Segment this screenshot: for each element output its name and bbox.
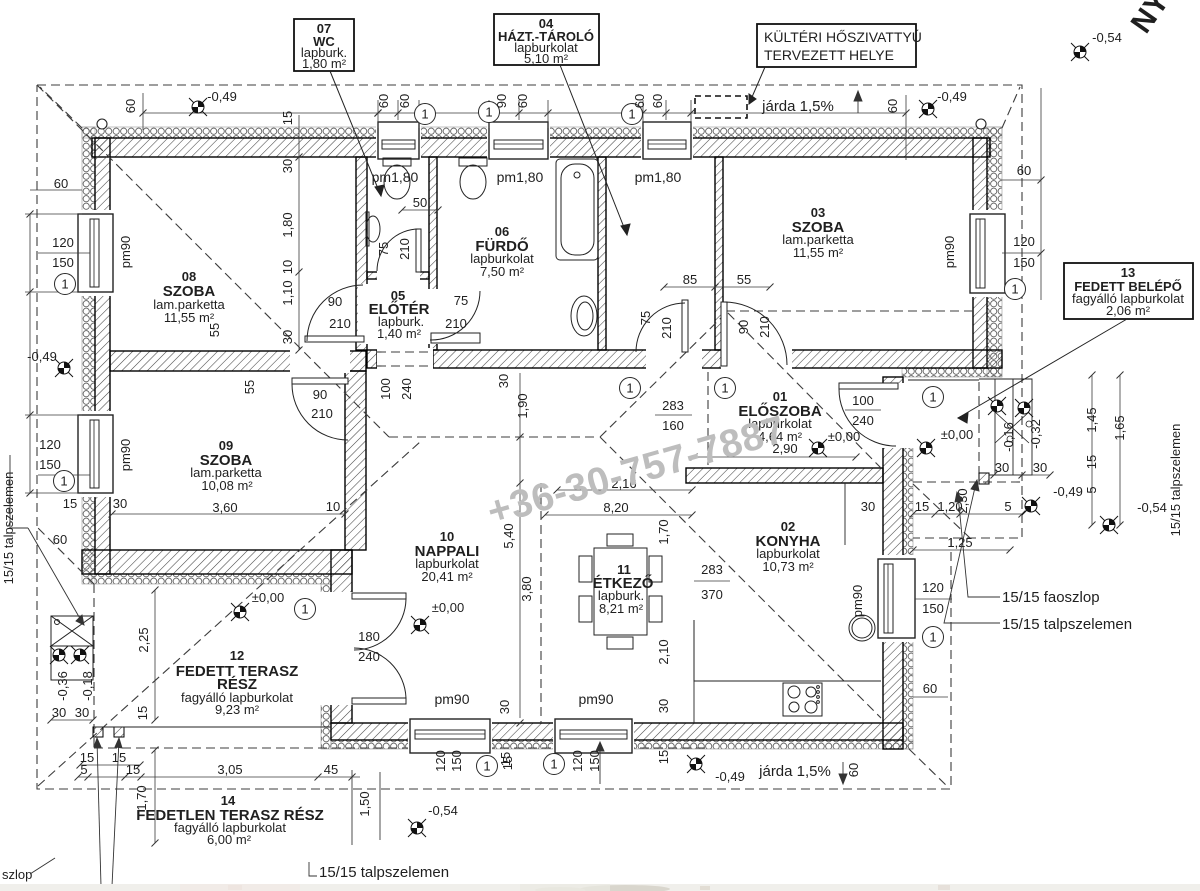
svg-text:pm90: pm90 [850, 585, 865, 618]
svg-text:1,70: 1,70 [656, 519, 671, 544]
svg-text:5: 5 [1084, 486, 1099, 493]
svg-text:60: 60 [1017, 163, 1031, 178]
svg-text:2,10: 2,10 [656, 639, 671, 664]
svg-text:10,08 m²: 10,08 m² [201, 478, 253, 493]
svg-text:1,40 m²: 1,40 m² [377, 326, 422, 341]
svg-text:120: 120 [52, 235, 74, 250]
svg-text:06: 06 [495, 224, 509, 239]
svg-text:10,73 m²: 10,73 m² [762, 559, 814, 574]
svg-text:-0,32: -0,32 [1028, 419, 1043, 449]
svg-text:1,65: 1,65 [1112, 415, 1127, 440]
svg-text:15: 15 [1084, 455, 1099, 469]
svg-text:120: 120 [39, 437, 61, 452]
svg-text:03: 03 [811, 205, 825, 220]
svg-text:10: 10 [326, 499, 340, 514]
svg-text:-0,54: -0,54 [1092, 30, 1122, 45]
svg-text:15: 15 [126, 762, 140, 777]
svg-text:15/15 faoszlop: 15/15 faoszlop [1002, 589, 1100, 606]
svg-text:-0,54: -0,54 [1137, 500, 1167, 515]
svg-text:45: 45 [324, 762, 338, 777]
svg-text:KÜLTÉRI HŐSZIVATTYÚ: KÜLTÉRI HŐSZIVATTYÚ [764, 28, 922, 45]
svg-text:±0,00: ±0,00 [432, 600, 464, 615]
svg-text:240: 240 [852, 413, 874, 428]
svg-text:30: 30 [280, 159, 295, 173]
svg-text:60: 60 [123, 99, 138, 113]
svg-text:15/15 talpszelemen: 15/15 talpszelemen [1002, 616, 1132, 633]
svg-text:150: 150 [922, 601, 944, 616]
svg-text:60: 60 [376, 94, 391, 108]
svg-text:370: 370 [701, 587, 723, 602]
svg-text:1,50: 1,50 [357, 791, 372, 816]
svg-text:60: 60 [923, 681, 937, 696]
svg-text:15/15 talpszelemen: 15/15 talpszelemen [319, 864, 449, 881]
svg-text:3,05: 3,05 [217, 762, 242, 777]
svg-text:283: 283 [662, 398, 684, 413]
svg-text:-0,49: -0,49 [937, 89, 967, 104]
svg-text:2,06 m²: 2,06 m² [1106, 303, 1151, 318]
svg-text:02: 02 [781, 519, 795, 534]
svg-text:01: 01 [773, 389, 787, 404]
svg-text:15: 15 [112, 750, 126, 765]
svg-text:1,80: 1,80 [280, 212, 295, 237]
svg-text:55: 55 [242, 380, 257, 394]
svg-text:210: 210 [659, 317, 674, 339]
svg-text:60: 60 [397, 94, 412, 108]
svg-text:-0,36: -0,36 [55, 671, 70, 701]
svg-text:08: 08 [182, 269, 196, 284]
svg-text:szlop: szlop [2, 867, 32, 882]
svg-text:90: 90 [328, 294, 342, 309]
svg-text:TERVEZETT HELYE: TERVEZETT HELYE [764, 47, 894, 63]
svg-text:90: 90 [494, 94, 509, 108]
svg-text:20,41 m²: 20,41 m² [421, 569, 473, 584]
svg-text:55: 55 [207, 323, 222, 337]
svg-text:1,25: 1,25 [947, 535, 972, 550]
svg-text:9,23 m²: 9,23 m² [215, 702, 260, 717]
svg-text:85: 85 [683, 272, 697, 287]
svg-text:60: 60 [650, 94, 665, 108]
svg-text:210: 210 [397, 238, 412, 260]
svg-text:pm90: pm90 [118, 439, 133, 472]
svg-text:100: 100 [852, 393, 874, 408]
svg-text:1,90: 1,90 [515, 393, 530, 418]
svg-text:55: 55 [737, 272, 751, 287]
svg-text:30: 30 [496, 374, 511, 388]
svg-text:6,00 m²: 6,00 m² [207, 832, 252, 847]
svg-text:-0,54: -0,54 [428, 803, 458, 818]
svg-text:120: 120 [570, 750, 585, 772]
svg-text:30: 30 [497, 700, 512, 714]
svg-text:pm1,80: pm1,80 [372, 169, 419, 185]
svg-text:10: 10 [440, 529, 454, 544]
svg-text:15: 15 [280, 111, 295, 125]
svg-text:160: 160 [662, 418, 684, 433]
svg-text:1,45: 1,45 [1084, 407, 1099, 432]
svg-text:1,70: 1,70 [134, 785, 149, 810]
svg-text:50: 50 [413, 195, 427, 210]
svg-text:8,20: 8,20 [603, 500, 628, 515]
svg-text:75: 75 [638, 311, 653, 325]
svg-text:3,80: 3,80 [519, 576, 534, 601]
svg-text:±0,00: ±0,00 [941, 427, 973, 442]
svg-text:90: 90 [736, 320, 751, 334]
svg-text:1,10: 1,10 [280, 280, 295, 305]
svg-text:283: 283 [701, 562, 723, 577]
svg-text:90: 90 [313, 387, 327, 402]
svg-text:60: 60 [632, 94, 647, 108]
svg-text:30: 30 [280, 330, 295, 344]
svg-text:5,10 m²: 5,10 m² [524, 51, 569, 66]
svg-text:12: 12 [230, 648, 244, 663]
svg-text:15: 15 [63, 496, 77, 511]
svg-text:60: 60 [515, 94, 530, 108]
svg-text:15: 15 [135, 706, 150, 720]
svg-text:15: 15 [656, 750, 671, 764]
svg-text:150: 150 [52, 255, 74, 270]
svg-text:75: 75 [376, 242, 391, 256]
svg-text:120: 120 [1013, 234, 1035, 249]
svg-text:-0,49: -0,49 [207, 89, 237, 104]
svg-text:30: 30 [113, 496, 127, 511]
svg-text:14: 14 [221, 793, 236, 808]
svg-text:30: 30 [656, 699, 671, 713]
svg-text:11,55 m²: 11,55 m² [164, 310, 215, 325]
svg-text:60: 60 [885, 99, 900, 113]
svg-text:210: 210 [329, 316, 351, 331]
svg-text:240: 240 [399, 378, 414, 400]
svg-text:pm90: pm90 [942, 236, 957, 269]
svg-text:5: 5 [80, 762, 87, 777]
svg-text:13: 13 [1121, 265, 1135, 280]
svg-text:11,55 m²: 11,55 m² [793, 245, 844, 260]
svg-text:60: 60 [53, 532, 67, 547]
svg-text:180: 180 [358, 629, 380, 644]
svg-text:100: 100 [378, 378, 393, 400]
svg-text:75: 75 [454, 293, 468, 308]
svg-text:járda 1,5%: járda 1,5% [758, 763, 831, 780]
svg-text:30: 30 [75, 705, 89, 720]
svg-text:240: 240 [358, 649, 380, 664]
svg-text:30: 30 [52, 705, 66, 720]
svg-text:30: 30 [995, 460, 1009, 475]
svg-text:5: 5 [1004, 499, 1011, 514]
svg-text:-0,49: -0,49 [27, 349, 57, 364]
svg-text:2,25: 2,25 [136, 627, 151, 652]
svg-text:150: 150 [449, 750, 464, 772]
svg-text:60: 60 [846, 763, 861, 777]
svg-text:-0,49: -0,49 [715, 769, 745, 784]
svg-text:10: 10 [280, 260, 295, 274]
svg-text:120: 120 [922, 580, 944, 595]
svg-text:210: 210 [311, 406, 333, 421]
svg-text:15: 15 [915, 499, 929, 514]
svg-text:09: 09 [219, 438, 233, 453]
svg-text:-0,49: -0,49 [1053, 484, 1083, 499]
svg-text:-0,18: -0,18 [80, 671, 95, 701]
svg-text:3,60: 3,60 [212, 500, 237, 515]
svg-text:210: 210 [757, 316, 772, 338]
svg-text:-0,16: -0,16 [1001, 422, 1016, 452]
svg-text:15: 15 [498, 752, 513, 766]
svg-text:8,21 m²: 8,21 m² [599, 601, 644, 616]
svg-text:1,80 m²: 1,80 m² [302, 56, 347, 71]
svg-text:pm90: pm90 [434, 691, 469, 707]
svg-text:150: 150 [1013, 255, 1035, 270]
svg-text:120: 120 [433, 750, 448, 772]
svg-text:7,50 m²: 7,50 m² [480, 264, 525, 279]
svg-text:járda 1,5%: járda 1,5% [761, 98, 834, 115]
svg-text:pm1,80: pm1,80 [497, 169, 544, 185]
svg-text:150: 150 [39, 457, 61, 472]
svg-text:30: 30 [861, 499, 875, 514]
svg-text:15/15 talpszelemen: 15/15 talpszelemen [1168, 424, 1183, 537]
svg-text:pm1,80: pm1,80 [635, 169, 682, 185]
svg-text:pm90: pm90 [578, 691, 613, 707]
svg-text:210: 210 [445, 316, 467, 331]
svg-text:pm90: pm90 [118, 236, 133, 269]
svg-text:±0,00: ±0,00 [252, 590, 284, 605]
svg-text:±0,00: ±0,00 [828, 429, 860, 444]
svg-text:30: 30 [1033, 460, 1047, 475]
svg-text:60: 60 [54, 176, 68, 191]
